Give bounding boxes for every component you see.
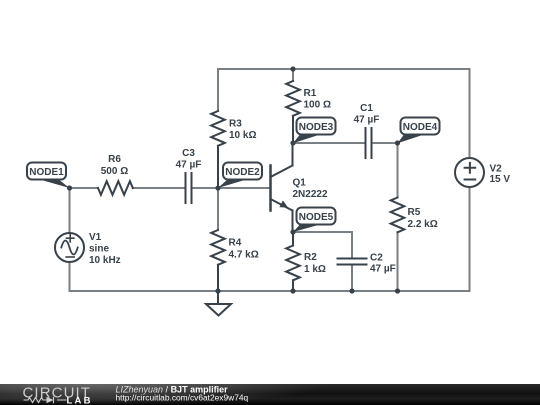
svg-text:47 µF: 47 µF (354, 115, 380, 126)
junction node dot NODE1 (67, 185, 72, 190)
wire Q1 emitter stub (to NODE5) (292, 211, 294, 233)
svg-text:NODE1: NODE1 (29, 167, 64, 178)
V2 plus sign (465, 163, 476, 173)
node NODE2 label (218, 163, 262, 189)
junction node dot NODE2 (215, 185, 220, 190)
wire R2 bottom lead (292, 280, 294, 291)
svg-text:LAB: LAB (67, 395, 93, 405)
wire R1 bottom lead (to NODE3) (292, 116, 294, 143)
wire right rail bottom (V2 to bottom rail) (469, 187, 471, 291)
svg-text:NODE3: NODE3 (299, 122, 334, 133)
V1 sine waveform (61, 241, 77, 255)
wire V1 bottom lead (69, 262, 71, 291)
Q1 emitter arrow (279, 200, 288, 207)
svg-text:sine: sine (89, 244, 109, 255)
svg-text:47 µF: 47 µF (176, 160, 202, 171)
svg-text:NODE5: NODE5 (299, 212, 334, 223)
node NODE3 label (293, 118, 336, 144)
node NODE1 label (27, 163, 70, 189)
footer bar (0, 384, 540, 405)
svg-text:R5: R5 (408, 207, 421, 218)
wire NODE1 to R6 (70, 187, 99, 189)
wire R4 top lead (217, 188, 219, 230)
wire C2 bottom lead (351, 266, 353, 292)
V1 minus sign (66, 256, 74, 258)
resistor R3 zigzag (211, 111, 225, 146)
wire right rail top (to V2) (469, 69, 471, 158)
Q1 collector diagonal (271, 166, 293, 178)
wire base (NODE2 to Q1) (218, 187, 270, 189)
wire R3 top lead (217, 69, 219, 111)
junction dot top rail / R1 (290, 66, 295, 71)
svg-text:http://circuitlab.com/cv6at2ex: http://circuitlab.com/cv6at2ex9w74q (116, 393, 249, 403)
svg-text:R1: R1 (304, 88, 317, 99)
logo resistor zigzag and diode (24, 397, 67, 404)
wire V1 top lead (69, 188, 71, 233)
svg-text:C1: C1 (360, 103, 373, 114)
Q1 emitter diagonal (271, 199, 293, 211)
wire R2 top lead (292, 232, 294, 246)
wire NODE3 to C1 (293, 142, 365, 144)
wire top rail (218, 68, 470, 70)
svg-text:NODE4: NODE4 (403, 122, 438, 133)
wire R5 top lead (397, 143, 399, 198)
voltage source V2 circle (455, 158, 484, 187)
ground symbol triangle (206, 304, 231, 316)
junction dot C2 / bottom rail (349, 288, 354, 293)
wire C3 to NODE2 (193, 187, 219, 189)
svg-text:V1: V1 (89, 232, 102, 243)
wire R5 bottom lead (397, 232, 399, 291)
junction node dot NODE3 (290, 140, 295, 145)
svg-text:2.2 kΩ: 2.2 kΩ (408, 219, 438, 230)
node NODE5 label (293, 208, 336, 233)
svg-text:V2: V2 (490, 164, 503, 175)
resistor R4 zigzag (211, 230, 225, 265)
svg-text:10 kHz: 10 kHz (89, 255, 121, 266)
wire R3 bottom lead (217, 146, 219, 188)
transistor Q1 base bar (269, 166, 272, 211)
resistor R6 zigzag (98, 181, 133, 195)
wire R1 top lead (292, 69, 294, 81)
svg-text:4.7 kΩ: 4.7 kΩ (229, 250, 259, 261)
svg-text:Q1: Q1 (293, 178, 307, 189)
wire bottom rail (70, 290, 470, 292)
svg-text:10 kΩ: 10 kΩ (229, 130, 256, 141)
wire C1 to NODE4 (373, 142, 398, 144)
wire NODE5 to C2 (293, 232, 352, 258)
capacitor C1 plates (366, 128, 372, 158)
V1 plus sign (67, 235, 74, 242)
svg-text:R3: R3 (229, 119, 242, 130)
voltage source V1 circle (55, 233, 84, 262)
svg-text:C2: C2 (370, 253, 383, 264)
svg-text:100 Ω: 100 Ω (304, 100, 331, 111)
svg-text:R6: R6 (108, 154, 121, 165)
svg-text:R4: R4 (229, 238, 242, 249)
wire R4 bottom lead (217, 265, 219, 291)
svg-text:500 Ω: 500 Ω (101, 166, 128, 177)
ground stub wire (217, 291, 219, 304)
junction dot ground (215, 288, 220, 293)
svg-text:R2: R2 (304, 252, 317, 263)
svg-text:1 kΩ: 1 kΩ (304, 264, 326, 275)
svg-text:47 µF: 47 µF (370, 264, 396, 275)
resistor R2 zigzag (286, 246, 300, 281)
svg-text:15 V: 15 V (490, 174, 511, 185)
resistor R5 zigzag (391, 198, 405, 233)
resistor R1 zigzag (286, 81, 300, 116)
wire R6 to C3 (133, 187, 185, 189)
capacitor C2 plates (338, 259, 367, 265)
wire Q1 collector stub (292, 143, 294, 166)
V2 minus sign (465, 179, 476, 181)
junction node dot NODE5 (290, 229, 295, 234)
junction dot R5 / bottom rail (395, 288, 400, 293)
junction dot R2 / bottom rail (290, 288, 295, 293)
junction node dot NODE4 (395, 140, 400, 145)
svg-text:C3: C3 (182, 148, 195, 159)
node NODE4 label (398, 118, 440, 144)
svg-text:2N2222: 2N2222 (293, 189, 328, 200)
svg-text:NODE2: NODE2 (225, 167, 260, 178)
capacitor C3 plates (186, 173, 192, 203)
